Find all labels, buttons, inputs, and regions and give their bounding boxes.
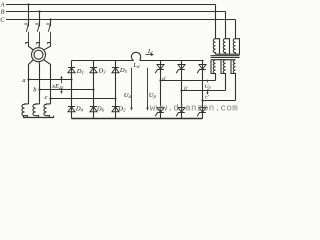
wire: phase line B — [6, 11, 226, 13]
node: dot b at leg2 — [92, 88, 94, 90]
wire: T2 primary star bus — [216, 53, 241, 55]
svg-text:Ld: Ld — [132, 62, 140, 69]
winding: T2 primary B — [223, 39, 229, 55]
winding: secondary coil c — [44, 104, 51, 118]
svg-text:Ud: Ud — [124, 92, 132, 99]
wire: drop B to transformer T2 — [225, 12, 227, 39]
wire: node line b — [40, 89, 94, 91]
annotation: Id arrow — [146, 53, 155, 56]
wire: phase line A — [6, 4, 216, 6]
wire: drop A to transformer T2 — [215, 5, 217, 39]
wire: bridge leg 3 — [115, 61, 117, 119]
wire: drop C to transformer T2 — [235, 20, 237, 39]
node b tap dot — [38, 88, 40, 90]
svg-text:Uβ: Uβ — [149, 92, 157, 99]
breaker QF pole 2 — [35, 24, 40, 44]
svg-text:c′: c′ — [205, 94, 209, 100]
wire: secondary vertical b — [39, 67, 41, 104]
wire: bridge leg 2 — [93, 61, 95, 119]
svg-text:b′: b′ — [184, 86, 189, 92]
svg-text:Uβ: Uβ — [205, 84, 211, 90]
wire: bridge leg 1 — [71, 61, 73, 119]
svg-text:D6: D6 — [96, 106, 105, 113]
wire: T2 secondary tie — [211, 59, 236, 61]
annotation: E20 down arrow — [60, 88, 62, 94]
node: junction dot C — [49, 18, 51, 20]
thyristor VT4 — [155, 108, 164, 117]
node: dot c' — [201, 99, 203, 101]
wire: T1 lead out mid — [38, 62, 41, 67]
svg-text:D4: D4 — [75, 106, 84, 113]
transformer T2 core — [211, 56, 240, 58]
svg-text:D2: D2 — [117, 106, 126, 113]
node a tap dot — [27, 78, 29, 80]
wire: drop from C to breaker 3 — [50, 20, 52, 26]
winding: T2 secondary c' — [231, 60, 236, 101]
annotation: U beta prime arrow — [206, 80, 208, 95]
svg-text:B: B — [1, 8, 5, 15]
svg-text:www.dianzon.com: www.dianzon.com — [150, 103, 239, 114]
diode D3 — [90, 68, 97, 73]
wire: drop from A to breaker 1 — [28, 5, 30, 26]
winding: T2 secondary b' — [221, 60, 226, 91]
wire: secondary vertical c — [50, 67, 52, 104]
diode bridge bottom bus — [72, 118, 203, 120]
wire: T1 lead out left — [29, 59, 34, 67]
thyristor VT3 — [176, 65, 185, 74]
wire: secondary vertical a — [28, 67, 30, 104]
wire: inverter leg 1 — [160, 61, 162, 119]
wire: node line a' — [161, 80, 216, 82]
winding: T2 secondary a' — [211, 60, 216, 81]
thyristor VT2 — [197, 108, 206, 117]
svg-text:D1: D1 — [76, 68, 84, 75]
transformer T1 inner circle — [34, 50, 43, 59]
transformer T1 outer circle — [32, 48, 46, 62]
wire: phase line C — [6, 19, 236, 21]
svg-text:Id: Id — [147, 48, 153, 55]
node: junction dot B — [38, 10, 40, 12]
node: dot a' — [159, 79, 161, 81]
annotation: U beta arrow — [146, 68, 149, 111]
svg-text:c: c — [45, 94, 48, 101]
svg-text:D3: D3 — [98, 68, 107, 75]
svg-text:D5: D5 — [119, 67, 128, 74]
wire: inverter leg 3 — [202, 61, 204, 119]
node: junction dot A — [27, 3, 29, 5]
wire: node line b' — [182, 90, 226, 92]
svg-text:C: C — [0, 16, 5, 23]
wire: star point bus — [24, 116, 54, 118]
diode bridge top bus — [72, 60, 204, 62]
svg-text:a′: a′ — [162, 76, 167, 82]
wire: T1 lead in right — [43, 43, 50, 51]
winding: T2 primary A — [213, 39, 219, 55]
node c tap dot — [49, 97, 51, 99]
winding: secondary coil b — [33, 104, 40, 118]
wire: T1 lead in left — [29, 43, 34, 51]
wire: node line a — [29, 79, 72, 81]
diode D2 — [112, 107, 119, 112]
winding: T2 primary C — [233, 39, 239, 55]
breaker QF pole 3 — [46, 24, 51, 44]
diode D6 — [90, 107, 97, 112]
wire: inverter leg 2 — [181, 61, 183, 119]
svg-text:A: A — [0, 1, 5, 8]
winding: secondary coil a — [22, 104, 29, 118]
wire: node line c' — [203, 100, 236, 102]
diode D5 — [112, 68, 119, 73]
node: dot b' — [180, 89, 182, 91]
wire: drop from B to breaker 2 — [39, 12, 41, 26]
annotation: Ud arrow — [130, 68, 133, 111]
svg-text:b: b — [33, 87, 36, 94]
inductor Ld loop — [131, 52, 141, 60]
thyristor VT6 — [176, 108, 185, 117]
svg-text:xE20: xE20 — [51, 83, 64, 90]
breaker QF pole 1 — [24, 24, 29, 44]
annotation: E20 up arrow — [60, 76, 62, 84]
wire: T1 lead out right — [43, 59, 50, 67]
svg-text:a: a — [22, 77, 25, 84]
thyristor VT5 — [197, 65, 206, 74]
node: dot c at leg3 — [114, 97, 116, 99]
node: dot a at leg1 — [70, 78, 72, 80]
diode D1 — [68, 68, 75, 73]
thyristor VT1 — [155, 65, 164, 74]
diode D4 — [68, 107, 75, 112]
wire: T1 lead in mid — [38, 43, 41, 48]
wire: node line c — [51, 98, 116, 100]
